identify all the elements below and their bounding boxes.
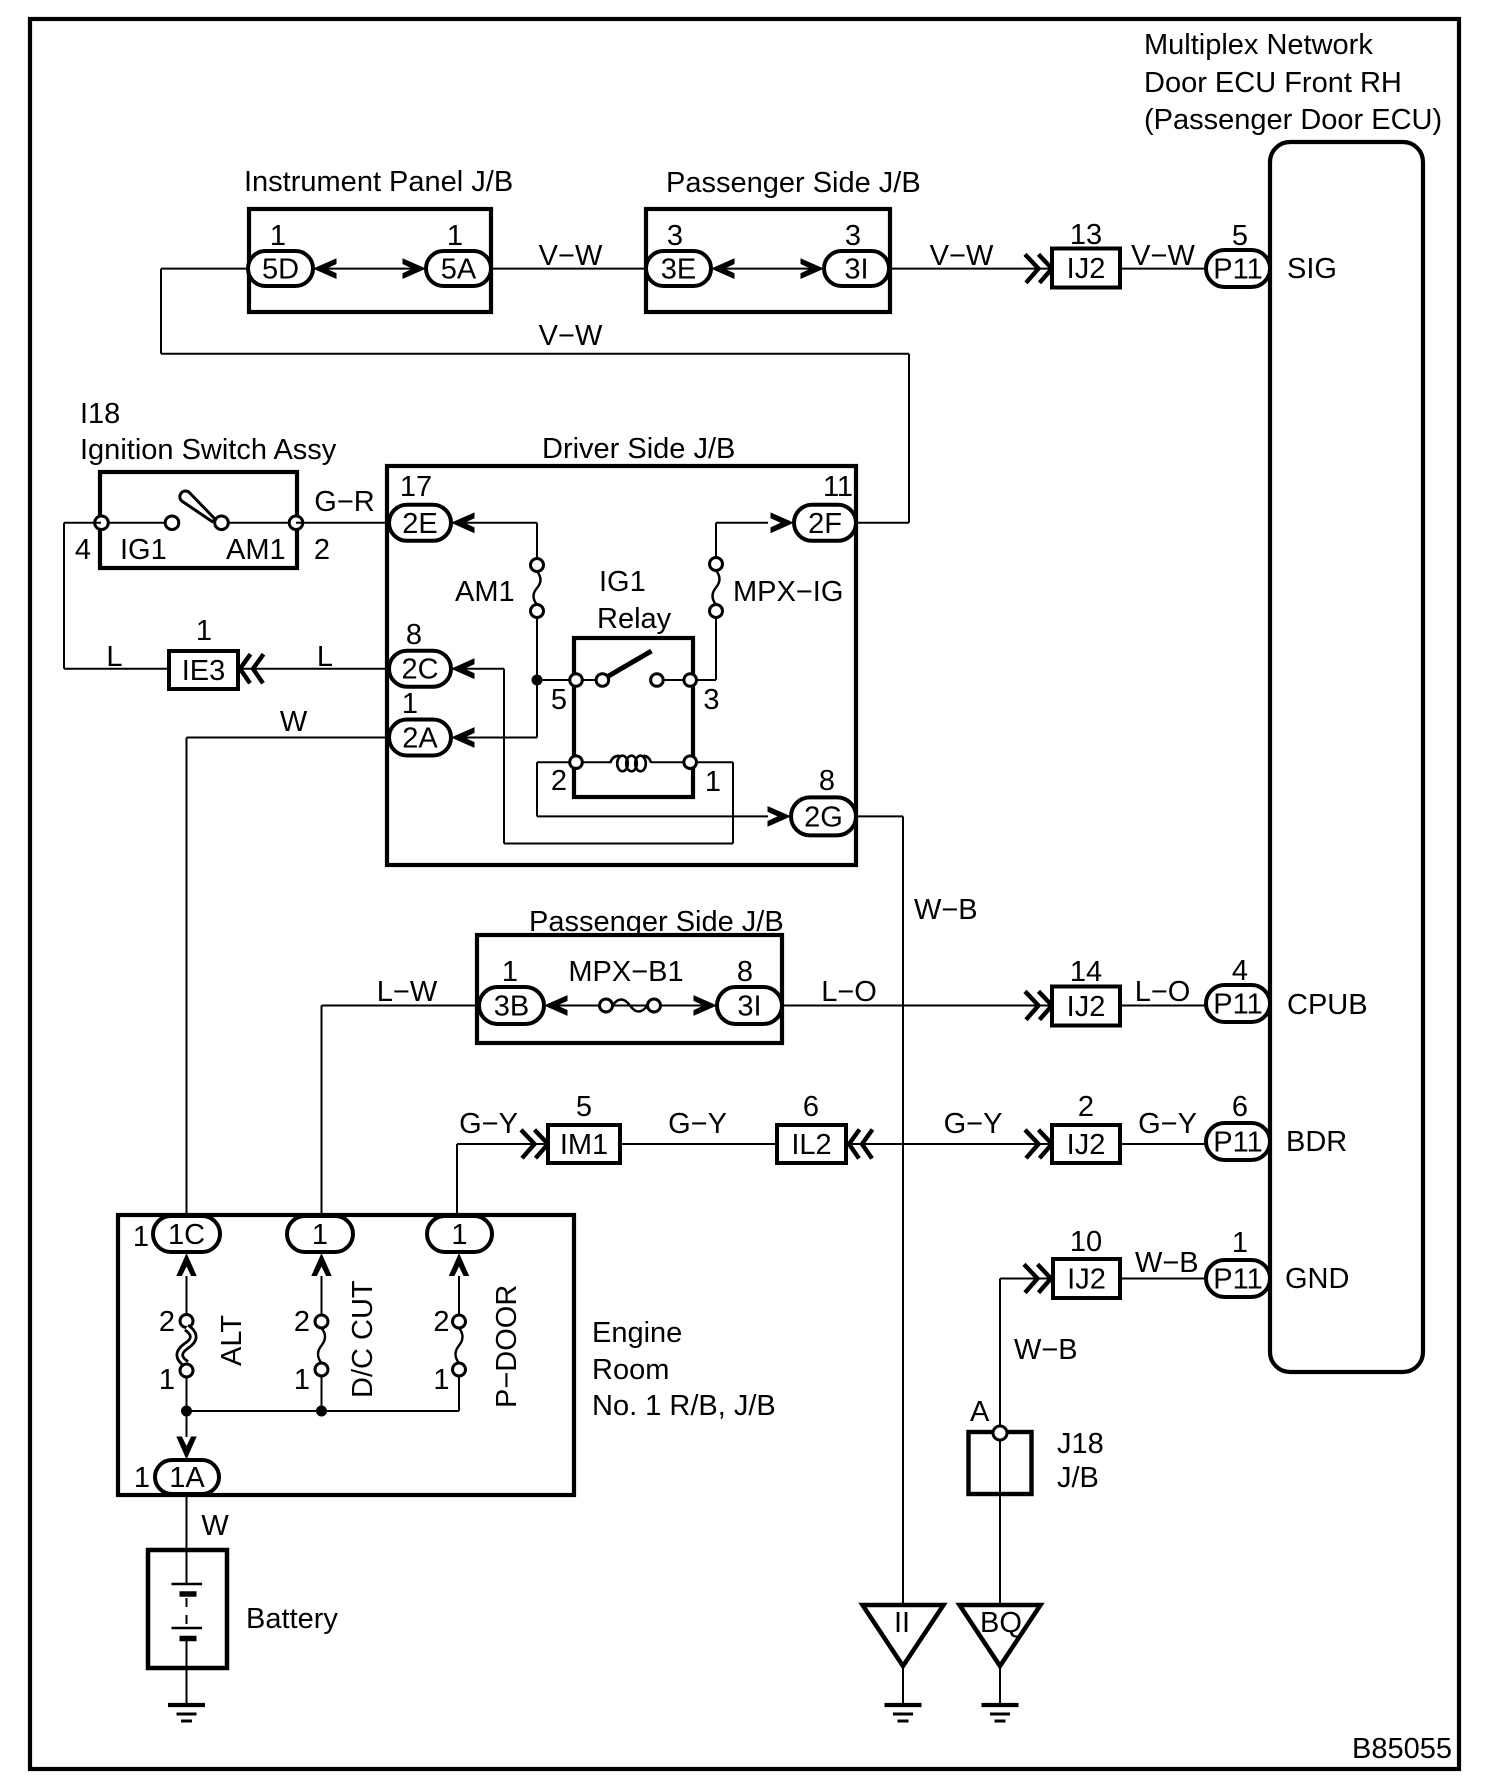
svg-text:3: 3	[667, 220, 683, 252]
svg-text:P11: P11	[1213, 1264, 1262, 1296]
svg-text:3: 3	[845, 220, 861, 252]
svg-text:1: 1	[1232, 1227, 1248, 1259]
svg-text:1: 1	[134, 1462, 150, 1494]
Engine Room box	[118, 1215, 574, 1495]
internal wire 3B to 3I with fuse	[544, 1005, 717, 1007]
junction connector IJ2 (GND)	[1053, 1259, 1120, 1298]
wire junction to relay pin 5	[537, 679, 570, 681]
svg-text:5A: 5A	[441, 254, 477, 286]
svg-text:2F: 2F	[808, 508, 842, 540]
wire W-B from J18 riser to IJ2 GND	[1000, 1278, 1053, 1280]
svg-text:2: 2	[1078, 1091, 1094, 1123]
svg-text:4: 4	[1232, 955, 1248, 987]
switch contact IG1	[165, 516, 179, 530]
arrow into 3I second	[694, 995, 718, 1016]
svg-text:IE3: IE3	[182, 655, 226, 687]
fuse D/C CUT	[315, 1315, 328, 1328]
junction connector IL2	[777, 1125, 846, 1163]
svg-text:1: 1	[502, 956, 518, 988]
svg-text:1: 1	[133, 1221, 149, 1253]
wire 5A to 3E	[491, 268, 646, 270]
relay coil pin 1	[684, 756, 697, 769]
svg-text:MPX−B1: MPX−B1	[568, 956, 683, 988]
svg-text:10: 10	[1070, 1226, 1102, 1258]
svg-text:IJ2: IJ2	[1067, 253, 1106, 285]
junction connector IM1	[548, 1125, 620, 1163]
wire IJ2 to P11 CPUB	[1120, 1005, 1206, 1007]
svg-text:P11: P11	[1213, 254, 1262, 286]
svg-text:5: 5	[1232, 220, 1248, 252]
svg-text:17: 17	[400, 471, 432, 503]
wire 3I to IJ2	[889, 268, 1052, 270]
arrow into 2A	[451, 727, 475, 748]
relay pin 5	[570, 674, 583, 687]
connector 2F	[794, 505, 856, 541]
svg-text:1: 1	[312, 1219, 328, 1251]
svg-text:Relay: Relay	[597, 603, 672, 635]
wire AM1 fuse to junction	[536, 617, 538, 680]
junction connector IJ2 (BDR)	[1052, 1125, 1120, 1163]
battery box	[148, 1550, 227, 1668]
svg-text:Engine: Engine	[592, 1317, 682, 1349]
connector 2E	[389, 505, 451, 541]
connector 5D	[248, 251, 313, 286]
svg-text:1: 1	[159, 1364, 175, 1396]
wire IJ2 to P11	[1120, 268, 1206, 270]
svg-text:8: 8	[819, 765, 835, 797]
svg-text:1: 1	[270, 220, 286, 252]
arrow into 2F	[771, 512, 795, 533]
internal wire coil pin 2 to 2G	[537, 761, 570, 763]
wire IE3 to 2C	[239, 668, 389, 670]
connector P11 pin 1 GND	[1206, 1260, 1270, 1297]
switch contact AM1	[215, 516, 229, 530]
svg-text:2: 2	[551, 765, 567, 797]
svg-text:J/B: J/B	[1057, 1462, 1099, 1494]
arrow up to 1C	[176, 1253, 196, 1276]
svg-text:No. 1 R/B, J/B: No. 1 R/B, J/B	[592, 1390, 776, 1422]
svg-text:Door ECU Front RH: Door ECU Front RH	[1144, 67, 1402, 99]
wire 5D-5A	[313, 268, 426, 270]
svg-text:G−Y: G−Y	[459, 1108, 518, 1140]
svg-text:3I: 3I	[844, 254, 868, 286]
internal wire MPX-IG to 2F	[696, 679, 716, 681]
chevron out of IL2	[849, 1130, 873, 1159]
Instrument Panel J/B box	[249, 209, 491, 312]
svg-text:G−R: G−R	[314, 486, 374, 518]
svg-text:Room: Room	[592, 1354, 669, 1386]
internal wire 2C to relay coil pin 1	[451, 668, 504, 670]
svg-text:CPUB: CPUB	[1287, 989, 1368, 1021]
connector P11 pin 6 BDR	[1206, 1123, 1270, 1160]
svg-text:AM1: AM1	[226, 534, 286, 566]
wire junction down to 2A	[536, 680, 538, 738]
svg-text:L−W: L−W	[377, 976, 438, 1008]
svg-text:BQ: BQ	[980, 1607, 1022, 1639]
svg-text:W−B: W−B	[1135, 1247, 1199, 1279]
wire L-O 3I to IJ2	[782, 1005, 1052, 1007]
wire 3E-3I	[711, 268, 824, 270]
svg-text:SIG: SIG	[1287, 253, 1337, 285]
connector 3E	[646, 251, 711, 286]
svg-text:2: 2	[294, 1306, 310, 1338]
svg-text:6: 6	[1232, 1091, 1248, 1123]
wire 1A to battery	[186, 1494, 188, 1550]
svg-text:V−W: V−W	[539, 320, 603, 352]
svg-text:5D: 5D	[262, 254, 299, 286]
chevron out of IE3	[240, 654, 264, 683]
svg-text:I18: I18	[80, 398, 120, 430]
arrow into 3B	[544, 995, 568, 1016]
svg-text:14: 14	[1070, 956, 1102, 988]
arrow into 5D	[313, 258, 337, 279]
svg-text:Ignition Switch Assy: Ignition Switch Assy	[80, 434, 337, 466]
svg-text:IM1: IM1	[560, 1129, 608, 1161]
ground triangle BQ	[960, 1605, 1041, 1666]
svg-text:1: 1	[402, 688, 418, 720]
svg-text:A: A	[970, 1396, 990, 1428]
arrow into 2C	[451, 658, 475, 679]
svg-text:J18: J18	[1057, 1428, 1104, 1460]
ALT column: connector 1C	[153, 1216, 220, 1252]
relay lever	[606, 651, 652, 678]
chevron into IJ2 GND	[1024, 1264, 1051, 1292]
wire IM1 to IL2	[620, 1143, 777, 1145]
arrow into 3E	[711, 258, 735, 279]
junction dot ALT	[181, 1406, 192, 1417]
svg-text:1: 1	[451, 1219, 467, 1251]
svg-text:2A: 2A	[402, 723, 438, 755]
connector P11 pin 4 CPUB	[1206, 985, 1270, 1022]
svg-text:AM1: AM1	[455, 576, 515, 608]
relay contact a	[596, 674, 609, 687]
svg-text:1: 1	[705, 766, 721, 798]
svg-text:V−W: V−W	[1131, 240, 1195, 272]
svg-text:IJ2: IJ2	[1067, 1129, 1106, 1161]
fuse MPX-IG	[710, 558, 723, 571]
connector P11 pin 5 SIG	[1206, 250, 1270, 287]
arrow into 5A	[403, 258, 427, 279]
svg-text:B85055: B85055	[1352, 1733, 1452, 1765]
Driver Side J/B box	[387, 466, 856, 865]
wire 5D loop to lower V-W run	[161, 268, 248, 270]
P-DOOR column: connector 1	[427, 1216, 492, 1252]
svg-text:2E: 2E	[402, 508, 437, 540]
svg-text:IL2: IL2	[791, 1129, 831, 1161]
svg-text:2: 2	[159, 1306, 175, 1338]
svg-text:IJ2: IJ2	[1067, 991, 1106, 1023]
chevron into IJ2	[1025, 254, 1052, 282]
svg-text:1A: 1A	[169, 1462, 205, 1494]
svg-text:L: L	[106, 641, 122, 673]
ground II	[885, 1703, 922, 1707]
svg-text:BDR: BDR	[1286, 1126, 1347, 1158]
arrow into 3I	[801, 258, 825, 279]
switch pin 4	[95, 516, 109, 530]
svg-text:5: 5	[551, 684, 567, 716]
relay coil pin 2	[570, 756, 583, 769]
svg-text:GND: GND	[1285, 1263, 1349, 1295]
ground triangle II	[863, 1605, 944, 1666]
wire W-B from 2G down to II ground	[856, 815, 903, 817]
svg-text:V−W: V−W	[539, 240, 603, 272]
svg-text:1: 1	[294, 1364, 310, 1396]
svg-text:1: 1	[447, 220, 463, 252]
svg-text:5: 5	[576, 1091, 592, 1123]
svg-text:II: II	[894, 1607, 910, 1639]
internal wire 2E to AM1 fuse	[451, 522, 537, 524]
svg-text:4: 4	[75, 534, 91, 566]
switch internal wires	[102, 522, 166, 524]
junction dot	[532, 675, 543, 686]
ignition switch box	[100, 472, 297, 568]
connector 5A	[426, 251, 491, 286]
svg-text:P−DOOR: P−DOOR	[491, 1285, 523, 1408]
chevron into IJ2 CPUB	[1025, 991, 1052, 1019]
arrow down to 1A	[176, 1437, 196, 1460]
svg-text:P11: P11	[1213, 989, 1262, 1021]
svg-text:2: 2	[433, 1306, 449, 1338]
svg-text:3I: 3I	[737, 991, 761, 1023]
relay contact wires	[582, 679, 596, 681]
svg-text:8: 8	[737, 956, 753, 988]
junction dot D/C	[316, 1406, 327, 1417]
svg-text:W−B: W−B	[1014, 1334, 1078, 1366]
svg-text:1: 1	[196, 615, 212, 647]
wire L-W from 3B to engine room	[322, 1005, 478, 1007]
Passenger Side J/B box (middle)	[477, 935, 782, 1043]
J18 J/B box	[969, 1432, 1032, 1494]
svg-text:W−B: W−B	[914, 894, 978, 926]
svg-text:Battery: Battery	[246, 1603, 338, 1635]
svg-text:IG1: IG1	[120, 534, 167, 566]
svg-text:(Passenger Door ECU): (Passenger Door ECU)	[1144, 104, 1442, 136]
D/C CUT column: connector 1	[287, 1216, 353, 1252]
svg-text:MPX−IG: MPX−IG	[733, 576, 843, 608]
wire G-Y from engine room up to IM1	[456, 1144, 458, 1216]
svg-text:13: 13	[1070, 219, 1102, 251]
switch lever	[180, 491, 216, 522]
svg-text:L: L	[317, 641, 333, 673]
svg-text:Multiplex Network: Multiplex Network	[1144, 29, 1373, 61]
svg-text:6: 6	[803, 1091, 819, 1123]
svg-text:Instrument Panel J/B: Instrument Panel J/B	[244, 166, 513, 198]
fuse P-DOOR	[453, 1315, 466, 1328]
pin A circle	[993, 1426, 1007, 1440]
wire W from 2A to engine room	[187, 737, 390, 739]
chevron into IJ2 BDR	[1025, 1130, 1052, 1158]
junction connector IJ2 (SIG)	[1052, 249, 1120, 288]
switch pin 2	[289, 516, 303, 530]
connector 2C	[389, 651, 451, 687]
wire IL2 to IJ2 BDR	[846, 1143, 1052, 1145]
Passenger Side J/B box (top)	[646, 209, 890, 312]
svg-text:V−W: V−W	[930, 240, 994, 272]
ground battery	[168, 1703, 205, 1707]
connector 3B	[479, 987, 544, 1024]
relay coil	[617, 756, 628, 772]
svg-text:L−O: L−O	[1135, 976, 1191, 1008]
connector 3I second	[717, 987, 782, 1024]
svg-text:3E: 3E	[661, 254, 696, 286]
svg-text:8: 8	[406, 619, 422, 651]
svg-text:W: W	[280, 706, 308, 738]
arrow into 2G	[768, 806, 792, 827]
svg-text:2G: 2G	[804, 801, 843, 833]
svg-text:Driver Side J/B: Driver Side J/B	[542, 433, 735, 465]
svg-text:ALT: ALT	[216, 1315, 248, 1366]
svg-text:D/C CUT: D/C CUT	[347, 1280, 379, 1398]
connector 1A	[155, 1460, 219, 1494]
wire pin4 to IE3	[64, 522, 101, 524]
connector IE3	[169, 651, 238, 689]
fuse ALT (fusible link)	[180, 1315, 193, 1328]
svg-text:1: 1	[433, 1364, 449, 1396]
svg-text:2C: 2C	[401, 654, 438, 686]
fuse MPX-B1	[600, 999, 613, 1012]
ground BQ	[982, 1703, 1019, 1707]
svg-text:G−Y: G−Y	[668, 1108, 727, 1140]
svg-text:1C: 1C	[168, 1219, 205, 1251]
svg-text:L−O: L−O	[821, 976, 877, 1008]
svg-text:3B: 3B	[494, 991, 529, 1023]
svg-text:11: 11	[823, 471, 853, 503]
svg-text:2: 2	[314, 534, 330, 566]
svg-text:IJ2: IJ2	[1067, 1264, 1106, 1296]
junction connector IJ2 (CPUB)	[1052, 987, 1120, 1026]
ECU P11 block outline	[1270, 142, 1423, 1372]
battery internals	[186, 1550, 188, 1583]
wire IJ2 to P11 GND	[1120, 1278, 1206, 1280]
wire G-R switch to 2E	[296, 522, 389, 524]
fuse AM1	[531, 559, 544, 572]
connector 3I	[824, 251, 889, 286]
IG1 relay box	[574, 638, 693, 797]
svg-text:G−Y: G−Y	[944, 1108, 1003, 1140]
svg-text:P11: P11	[1213, 1127, 1262, 1159]
arrow into 2E	[451, 512, 475, 533]
relay contact b	[651, 674, 664, 687]
relay pin 3	[684, 674, 697, 687]
svg-text:W: W	[201, 1510, 229, 1542]
svg-text:Passenger Side J/B: Passenger Side J/B	[666, 167, 921, 199]
wire IJ2 to P11 BDR	[1120, 1143, 1206, 1145]
wire through J18	[999, 1432, 1001, 1605]
connector 2G	[791, 797, 856, 835]
bus wire to branches	[187, 1410, 460, 1412]
svg-text:G−Y: G−Y	[1138, 1108, 1197, 1140]
connector 2A	[389, 720, 451, 756]
svg-text:IG1: IG1	[599, 566, 646, 598]
chevron into IM1	[521, 1130, 548, 1158]
svg-text:3: 3	[703, 684, 719, 716]
